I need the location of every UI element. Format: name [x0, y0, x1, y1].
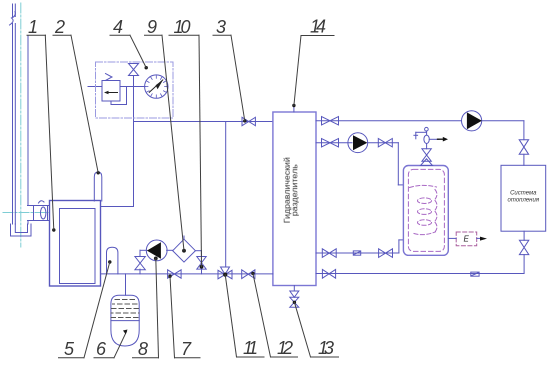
svg-text:10: 10 [174, 17, 191, 37]
svg-text:5: 5 [64, 339, 75, 359]
svg-text:Система: Система [510, 191, 537, 197]
svg-text:3: 3 [216, 17, 226, 37]
svg-text:отопления: отопления [508, 198, 540, 204]
svg-text:2: 2 [54, 17, 65, 37]
svg-text:4: 4 [113, 17, 123, 37]
svg-text:8: 8 [138, 339, 148, 359]
svg-text:6: 6 [96, 339, 107, 359]
svg-text:Гидравлическийразделитель: Гидравлическийразделитель [283, 157, 300, 223]
svg-text:12: 12 [277, 338, 293, 358]
svg-text:1: 1 [28, 17, 38, 37]
svg-text:9: 9 [147, 17, 157, 37]
svg-text:7: 7 [181, 339, 192, 359]
svg-text:14: 14 [310, 17, 326, 37]
svg-text:E: E [464, 235, 470, 244]
svg-text:11: 11 [243, 338, 258, 358]
svg-text:13: 13 [318, 338, 334, 358]
